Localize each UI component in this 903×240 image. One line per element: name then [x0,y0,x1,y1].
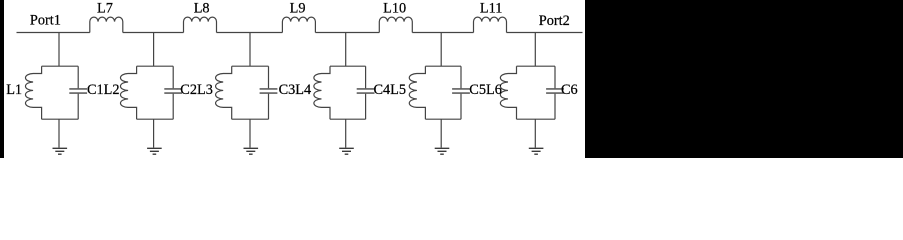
svg-text:C6: C6 [561,82,578,98]
svg-text:C5L6: C5L6 [469,82,502,98]
svg-text:C1L2: C1L2 [87,82,120,98]
svg-text:L11: L11 [480,1,503,17]
svg-text:Port2: Port2 [539,13,570,29]
svg-text:L1: L1 [6,82,22,98]
svg-text:C2L3: C2L3 [180,82,213,98]
svg-text:Port1: Port1 [30,13,61,29]
svg-text:L9: L9 [290,1,306,17]
svg-text:L7: L7 [97,1,113,17]
svg-text:C4L5: C4L5 [374,82,407,98]
svg-text:C3L4: C3L4 [279,82,312,98]
svg-text:L8: L8 [194,1,210,17]
svg-text:L10: L10 [383,1,406,17]
